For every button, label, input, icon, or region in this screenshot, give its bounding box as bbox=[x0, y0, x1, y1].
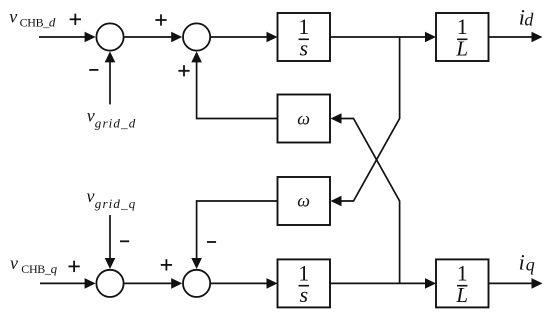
svg-text:1: 1 bbox=[457, 14, 468, 39]
svg-text:v: v bbox=[9, 6, 17, 26]
svg-text:ω: ω bbox=[297, 191, 310, 211]
svg-text:v: v bbox=[87, 186, 95, 206]
svg-text:CHB_q: CHB_q bbox=[21, 261, 57, 276]
svg-text:s: s bbox=[299, 282, 308, 307]
svg-text:v: v bbox=[87, 106, 95, 126]
svg-text:v: v bbox=[10, 253, 18, 273]
svg-text:grid_d: grid_d bbox=[95, 116, 137, 131]
svg-text:i: i bbox=[519, 249, 525, 274]
svg-text:grid_q: grid_q bbox=[95, 196, 137, 211]
svg-text:1: 1 bbox=[457, 261, 468, 286]
svg-text:q: q bbox=[526, 254, 535, 274]
svg-text:L: L bbox=[455, 36, 468, 60]
svg-text:ω: ω bbox=[297, 109, 310, 129]
svg-text:CHB_d: CHB_d bbox=[20, 14, 56, 29]
svg-text:s: s bbox=[299, 35, 308, 60]
svg-text:d: d bbox=[524, 10, 534, 30]
svg-text:L: L bbox=[455, 283, 468, 307]
